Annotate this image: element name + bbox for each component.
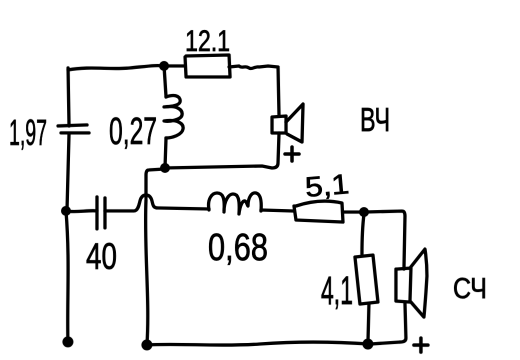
svg-text:12.1: 12.1 <box>185 25 230 58</box>
svg-text:ВЧ: ВЧ <box>360 101 390 138</box>
svg-text:40: 40 <box>86 236 117 277</box>
svg-text:0,27: 0,27 <box>109 111 157 153</box>
svg-text:1,97: 1,97 <box>9 112 47 153</box>
svg-text:СЧ: СЧ <box>453 273 487 305</box>
svg-text:4,1: 4,1 <box>321 269 353 313</box>
svg-text:5,1: 5,1 <box>304 168 351 203</box>
svg-text:0,68: 0,68 <box>208 227 268 269</box>
